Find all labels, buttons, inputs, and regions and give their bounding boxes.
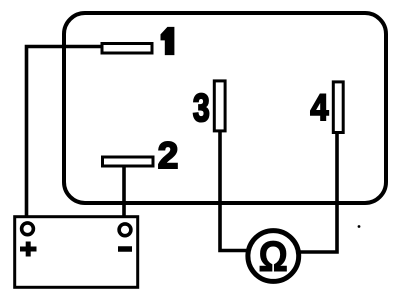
svg-text:3: 3 <box>193 86 210 129</box>
svg-text:Ω: Ω <box>258 234 287 281</box>
svg-text:4: 4 <box>310 87 329 128</box>
svg-text:2: 2 <box>158 135 179 176</box>
